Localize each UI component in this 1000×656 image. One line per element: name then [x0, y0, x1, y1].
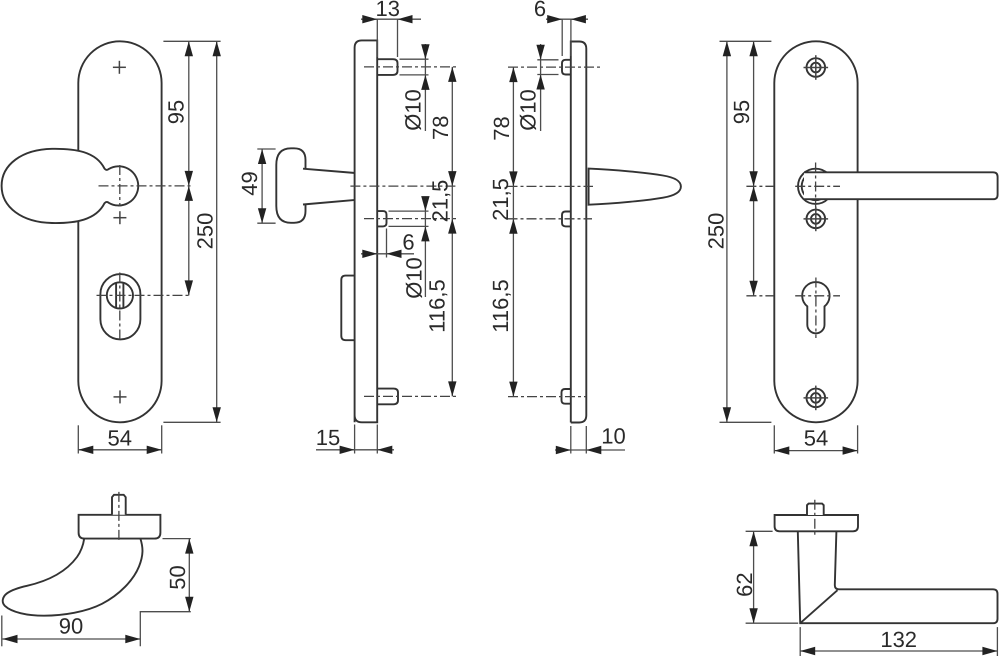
svg-text:54: 54: [107, 425, 131, 450]
svg-text:116,5: 116,5: [488, 279, 513, 332]
svg-text:Ø10: Ø10: [516, 89, 541, 131]
svg-text:116,5: 116,5: [424, 279, 449, 332]
svg-text:6: 6: [534, 0, 546, 21]
svg-text:250: 250: [703, 213, 728, 250]
svg-text:13: 13: [376, 0, 400, 21]
svg-text:78: 78: [428, 116, 453, 140]
svg-text:250: 250: [192, 213, 217, 250]
svg-text:78: 78: [489, 116, 514, 140]
svg-text:54: 54: [804, 425, 828, 450]
svg-text:21,5: 21,5: [488, 178, 513, 221]
svg-text:62: 62: [732, 572, 757, 596]
svg-text:95: 95: [729, 100, 754, 124]
svg-text:Ø10: Ø10: [400, 89, 425, 131]
svg-text:10: 10: [601, 424, 625, 449]
svg-text:50: 50: [165, 565, 190, 589]
svg-text:95: 95: [164, 100, 189, 124]
svg-text:15: 15: [316, 425, 340, 450]
svg-text:90: 90: [59, 614, 83, 639]
svg-text:21,5: 21,5: [428, 180, 453, 223]
svg-text:49: 49: [237, 171, 262, 195]
svg-text:Ø10: Ø10: [402, 257, 427, 299]
svg-text:6: 6: [402, 230, 414, 255]
svg-text:132: 132: [880, 627, 917, 652]
